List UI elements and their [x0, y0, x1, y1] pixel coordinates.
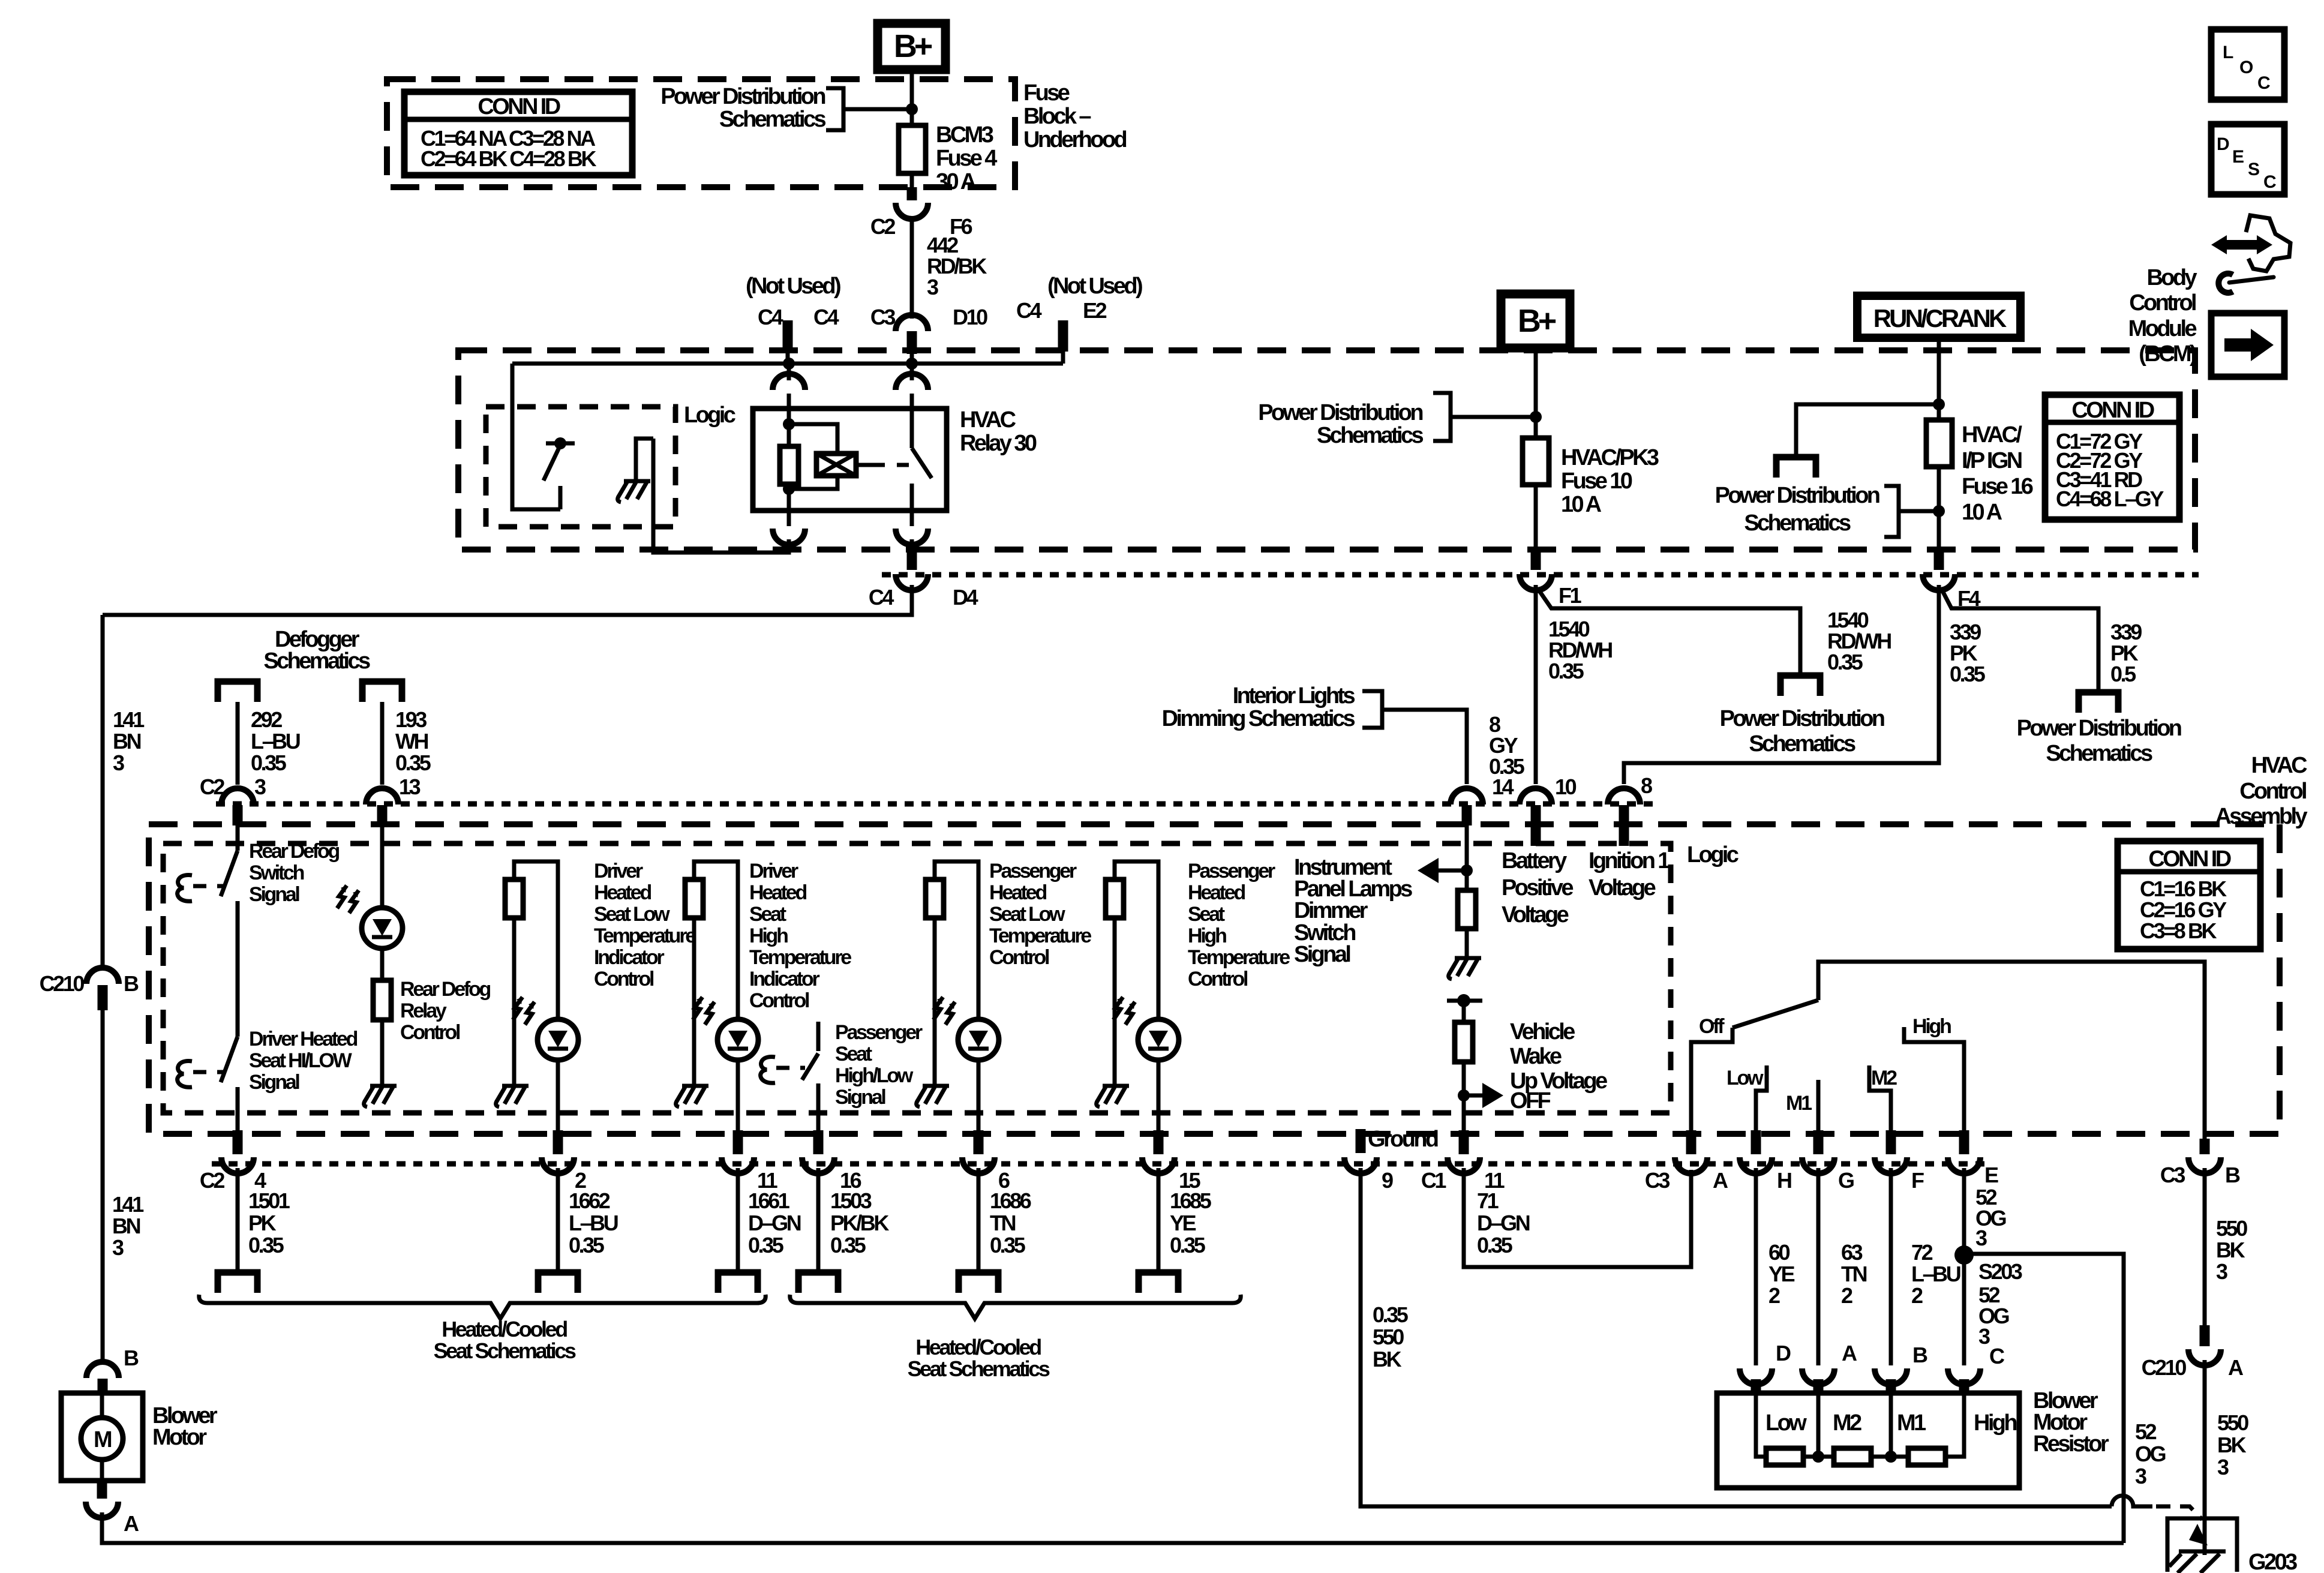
svg-text:YE: YE	[1170, 1211, 1196, 1235]
junction dot at fuse feed	[906, 103, 918, 115]
relay pin top (switch)	[910, 364, 914, 380]
logic ground path	[636, 439, 653, 480]
svg-text:High: High	[749, 924, 788, 947]
wire resistor to ground	[380, 1020, 385, 1085]
svg-text:M1: M1	[1786, 1092, 1812, 1115]
relay switch contact + blade	[910, 409, 914, 448]
svg-text:Relay: Relay	[400, 999, 447, 1022]
ground	[917, 1086, 949, 1107]
fuse HVAC/IP IGN Fuse 16 10 A	[1926, 420, 1952, 467]
connector C210 A	[2200, 1325, 2210, 1346]
svg-text:60: 60	[1768, 1240, 1790, 1265]
icon LOC box	[2211, 29, 2284, 100]
icon forward arrow box	[2211, 313, 2284, 377]
svg-text:Assembly: Assembly	[2215, 804, 2307, 829]
connector pin 6	[974, 1130, 984, 1154]
svg-text:HVAC/: HVAC/	[1962, 422, 2022, 448]
svg-text:High/Low: High/Low	[835, 1064, 914, 1087]
relay pin top (coil): wire, connector	[787, 364, 791, 380]
wire 71 D-GN 0.35 to pin A	[1464, 1168, 1691, 1267]
svg-text:0.35: 0.35	[1950, 662, 1986, 686]
connector pin G	[1813, 1130, 1824, 1154]
wire 442 RD/BK 3	[910, 220, 914, 319]
LED	[1138, 1019, 1179, 1060]
svg-text:Temperature: Temperature	[1188, 946, 1290, 969]
wire 141 BN 3 left vertical	[101, 615, 105, 966]
svg-text:Fuse 16: Fuse 16	[1962, 474, 2033, 499]
svg-text:3: 3	[254, 775, 266, 799]
svg-text:3: 3	[113, 751, 124, 775]
blower motor box	[61, 1393, 143, 1481]
svg-text:Control: Control	[989, 946, 1049, 969]
svg-text:Heated: Heated	[749, 881, 806, 904]
fuse BCM3 Fuse 4 30 A	[899, 125, 926, 173]
svg-text:C4: C4	[869, 585, 894, 610]
CONN ID table (fuse block)	[404, 92, 632, 175]
connector F4	[1923, 574, 1955, 590]
svg-text:D: D	[2217, 134, 2229, 154]
connector C4/D4	[907, 549, 917, 570]
svg-text:HVAC/PK3: HVAC/PK3	[1561, 445, 1659, 470]
wire F1 down to pin 10	[1534, 585, 1538, 784]
svg-text:Signal: Signal	[249, 1071, 299, 1094]
svg-text:CONN ID: CONN ID	[2148, 846, 2230, 872]
svg-text:YE: YE	[1768, 1262, 1795, 1286]
svg-text:0.35: 0.35	[1477, 1233, 1513, 1257]
wire 63 TN 2	[1816, 1168, 1821, 1365]
svg-text:BK: BK	[1373, 1347, 1402, 1371]
svg-text:3: 3	[927, 275, 938, 299]
svg-text:M1: M1	[1897, 1410, 1926, 1436]
svg-text:Control: Control	[400, 1021, 460, 1044]
CONN ID table (HVAC)	[2118, 841, 2260, 949]
svg-text:0.35: 0.35	[395, 751, 431, 775]
connector pin 11	[733, 1130, 743, 1154]
connector C2/F6	[907, 187, 917, 200]
svg-text:(BCM): (BCM)	[2139, 341, 2196, 367]
svg-text:Ground: Ground	[1368, 1127, 1438, 1152]
svg-text:Rear Defog: Rear Defog	[400, 978, 491, 1001]
svg-text:Control: Control	[594, 968, 654, 990]
svg-text:HVAC: HVAC	[2251, 753, 2308, 778]
svg-text:52: 52	[2135, 1419, 2157, 1444]
svg-text:0.35: 0.35	[251, 751, 287, 775]
relay coil resistor	[780, 446, 798, 484]
svg-text:Module: Module	[2128, 316, 2197, 341]
svg-text:B+: B+	[894, 28, 932, 64]
LED (rear defog relay)	[362, 908, 403, 948]
svg-text:Control: Control	[2239, 779, 2306, 804]
resistor element 2	[1834, 1448, 1871, 1465]
svg-text:B+: B+	[1518, 303, 1556, 339]
svg-text:0.5: 0.5	[2110, 662, 2136, 686]
relay pin bottom (coil)	[787, 511, 791, 526]
svg-text:High: High	[1188, 924, 1226, 947]
svg-text:A: A	[1713, 1168, 1728, 1193]
wire LED to resistor	[380, 948, 385, 980]
svg-text:(Not Used): (Not Used)	[746, 274, 840, 299]
M1 contact	[1816, 1080, 1821, 1131]
svg-text:9: 9	[1382, 1168, 1393, 1193]
wire to pin 16	[816, 1111, 821, 1131]
connector pin 13	[366, 788, 398, 804]
switch actuator (rear defog)	[178, 875, 192, 902]
power symbol B+ (second)	[1501, 294, 1570, 348]
svg-text:I/P IGN: I/P IGN	[1962, 448, 2022, 473]
motor M circle	[81, 1418, 123, 1460]
connector A (blower)	[97, 1481, 107, 1499]
svg-text:Indicator: Indicator	[594, 946, 664, 969]
svg-text:BCM3: BCM3	[936, 122, 993, 148]
resistor pin C	[1948, 1368, 1980, 1385]
bracket	[1433, 393, 1451, 441]
svg-text:0.35: 0.35	[1827, 650, 1863, 674]
svg-text:M: M	[94, 1427, 112, 1452]
series links + junction dots	[1803, 1455, 1834, 1459]
ground	[1097, 1086, 1129, 1107]
brace (heated/cooled seat schematics left)	[199, 1295, 765, 1319]
svg-text:Schematics: Schematics	[1317, 423, 1424, 448]
svg-text:0.35: 0.35	[830, 1233, 866, 1257]
svg-text:1503: 1503	[830, 1188, 872, 1213]
svg-text:Temperature: Temperature	[594, 924, 696, 947]
svg-text:Fuse 10: Fuse 10	[1561, 469, 1632, 494]
vehicle wake up branch: top bar	[1447, 999, 1482, 1003]
wire bracket to fuse wire	[1451, 415, 1536, 419]
page link symbol (defogger 292)	[218, 682, 257, 702]
svg-text:H: H	[1777, 1168, 1791, 1193]
wire common to C3-B	[1818, 962, 2205, 1139]
svg-text:Seat Low: Seat Low	[594, 903, 670, 926]
dashed link to ground	[2156, 1506, 2202, 1520]
svg-text:A: A	[2228, 1355, 2244, 1380]
passenger seat high/low switch: contact	[816, 1022, 821, 1051]
svg-text:G: G	[1838, 1168, 1854, 1193]
svg-text:292: 292	[251, 707, 282, 732]
svg-text:Schematics: Schematics	[263, 649, 370, 674]
svg-text:D4: D4	[953, 585, 978, 610]
rear defog switch signal: wire	[236, 825, 240, 851]
svg-text:71: 71	[1477, 1188, 1499, 1213]
ground (rear defog relay)	[364, 1086, 397, 1107]
svg-text:C3=8 BK: C3=8 BK	[2140, 918, 2217, 943]
svg-text:Schematics: Schematics	[719, 107, 826, 132]
svg-text:Dimmer: Dimmer	[1294, 898, 1368, 923]
svg-text:Signal: Signal	[835, 1086, 885, 1109]
svg-text:C3: C3	[2160, 1163, 2185, 1187]
M2 contact	[1869, 1065, 1891, 1131]
CONN ID table (BCM)	[2045, 395, 2179, 520]
LED	[538, 1019, 578, 1060]
switch blade	[802, 1053, 818, 1080]
wire 550 BK 3 to ground	[2203, 1360, 2207, 1555]
svg-text:C2=64 BK C4=28 BK: C2=64 BK C4=28 BK	[421, 146, 596, 171]
wire C4/D4 down-left to blower feed	[103, 585, 912, 615]
svg-text:B: B	[1912, 1343, 1927, 1367]
svg-text:(Not Used): (Not Used)	[1047, 274, 1142, 299]
LED branch: passenger heated seat high	[1115, 861, 1158, 1019]
svg-text:2: 2	[1911, 1283, 1923, 1308]
wire B+ to fuse 10	[1534, 348, 1538, 438]
svg-text:Interior Lights: Interior Lights	[1233, 683, 1355, 709]
svg-text:E2: E2	[1083, 298, 1107, 323]
svg-text:1685: 1685	[1170, 1188, 1212, 1213]
wire fuse to connector	[910, 173, 914, 187]
instrument panel lamps dimmer branch: wire	[1465, 825, 1469, 890]
svg-text:0.35: 0.35	[990, 1233, 1026, 1257]
svg-text:Vehicle: Vehicle	[1510, 1019, 1575, 1044]
svg-text:S203: S203	[1978, 1259, 2022, 1284]
arrow left (dimmer signal)	[1434, 869, 1467, 873]
bracket (fuse16 feed)	[1884, 486, 1899, 537]
relay coil wire + junctions	[787, 409, 791, 446]
svg-text:Signal: Signal	[249, 883, 299, 906]
svg-text:C4: C4	[758, 305, 783, 329]
svg-text:0.35: 0.35	[1170, 1233, 1206, 1257]
svg-text:Heated: Heated	[594, 881, 651, 904]
svg-text:1686: 1686	[990, 1188, 1031, 1213]
svg-text:Power Distribution: Power Distribution	[1720, 706, 1884, 731]
LED branch: driver heated seat low	[514, 861, 558, 1019]
connector C3 pin B	[2200, 1139, 2210, 1154]
svg-text:G203: G203	[2248, 1550, 2297, 1573]
svg-text:10: 10	[1555, 775, 1577, 799]
resistor element 3	[1908, 1448, 1945, 1465]
svg-text:Heated/Cooled: Heated/Cooled	[915, 1335, 1041, 1359]
svg-text:3: 3	[2135, 1464, 2146, 1488]
wire to second switch	[236, 929, 240, 1037]
svg-text:141: 141	[113, 707, 145, 732]
wire to pin 4	[236, 1115, 240, 1131]
fuse HVAC/PK3 Fuse 10 10 A	[1523, 438, 1549, 485]
svg-text:Voltage: Voltage	[1589, 875, 1656, 900]
resistor (wake up)	[1455, 1022, 1473, 1062]
svg-text:Temperature: Temperature	[749, 946, 851, 969]
ground	[676, 1086, 708, 1107]
svg-text:Seat Schematics: Seat Schematics	[908, 1356, 1050, 1381]
connector C2 pin 4	[233, 1130, 243, 1154]
connector B (blower)	[86, 1362, 119, 1378]
svg-text:C3: C3	[870, 305, 896, 329]
connector pin 9 (ground)	[1344, 1157, 1377, 1173]
svg-text:Temperature: Temperature	[989, 924, 1091, 947]
svg-text:1501: 1501	[248, 1188, 290, 1213]
LED	[717, 1019, 758, 1060]
svg-text:Wake: Wake	[1510, 1044, 1562, 1069]
svg-text:Schematics: Schematics	[1749, 731, 1855, 757]
connector pin E	[1959, 1130, 1969, 1154]
svg-text:BN: BN	[112, 1214, 140, 1238]
svg-text:CONN ID: CONN ID	[478, 94, 560, 119]
ground pin 9 stub	[1356, 1129, 1366, 1153]
svg-text:Voltage: Voltage	[1502, 902, 1569, 927]
rear defog relay control branch: wire from pin 13	[380, 825, 385, 908]
svg-text:0.35: 0.35	[748, 1233, 784, 1257]
connector pin 8	[1608, 788, 1640, 804]
logic switch pivot bar	[546, 442, 575, 446]
svg-text:3: 3	[2216, 1259, 2227, 1284]
svg-text:Seat: Seat	[835, 1043, 872, 1065]
svg-text:0.35: 0.35	[1373, 1302, 1409, 1327]
bracket to fuse feed	[826, 88, 843, 130]
svg-text:Seat: Seat	[749, 903, 786, 926]
svg-text:Control: Control	[1188, 968, 1248, 990]
wire pin 9 to ground run	[1361, 1168, 2112, 1506]
dotted connector row 2	[212, 1161, 1986, 1167]
blower switch: Off position	[1691, 1028, 1733, 1131]
svg-text:C: C	[1989, 1344, 2005, 1368]
power symbol RUN/CRANK	[1857, 296, 2020, 338]
icon service arrows + wrench	[2211, 215, 2290, 293]
crossover hop	[2112, 1496, 2152, 1506]
ground (dimmer)	[1449, 958, 1481, 979]
svg-text:Driver: Driver	[594, 860, 643, 882]
svg-text:Switch: Switch	[249, 861, 304, 884]
svg-text:30 A: 30 A	[936, 169, 977, 194]
svg-text:Control: Control	[749, 989, 809, 1012]
svg-text:141: 141	[112, 1192, 144, 1217]
svg-text:HVAC: HVAC	[960, 407, 1016, 433]
svg-text:RUN/CRANK: RUN/CRANK	[1873, 304, 2007, 332]
svg-text:C: C	[2257, 73, 2270, 93]
svg-text:C4=68 L–GY: C4=68 L–GY	[2056, 487, 2164, 511]
svg-text:PK: PK	[248, 1211, 277, 1235]
switch contact	[236, 901, 240, 929]
svg-text:High: High	[1912, 1015, 1951, 1038]
svg-text:Control: Control	[2129, 290, 2196, 316]
svg-text:TN: TN	[1841, 1262, 1867, 1286]
svg-text:E: E	[2232, 147, 2244, 167]
not used pin stub C4 (left)	[783, 320, 793, 352]
wire bracket to B+ wire	[843, 107, 912, 112]
svg-text:Heated: Heated	[989, 881, 1046, 904]
splice S203	[1954, 1245, 1974, 1265]
svg-text:Power Distribution: Power Distribution	[1258, 400, 1422, 425]
connector C210 B	[86, 968, 119, 984]
arrow right (wake up OFF)	[1464, 1094, 1487, 1098]
svg-text:B: B	[124, 1346, 139, 1370]
svg-text:Fuse 4: Fuse 4	[936, 146, 997, 171]
svg-text:10 A: 10 A	[1962, 500, 2002, 525]
svg-text:Ignition 1: Ignition 1	[1589, 848, 1670, 873]
wire 8 GY 0.35	[1382, 710, 1467, 784]
svg-text:13: 13	[399, 775, 421, 799]
arrow into ground	[2189, 1524, 2208, 1545]
switch contact lower	[816, 1083, 821, 1111]
wire 52 OG 3 to S203	[1962, 1168, 1966, 1365]
svg-text:Dimming Schematics: Dimming Schematics	[1162, 706, 1355, 731]
switch blade (rear defog)	[221, 851, 238, 896]
svg-text:14: 14	[1492, 775, 1514, 799]
resistor pin A	[1802, 1368, 1834, 1385]
resistor	[926, 879, 944, 918]
wire 193 WH 0.35	[380, 702, 385, 785]
connector C1 pin 11	[1459, 1130, 1469, 1154]
wire F1 branch to power distribution	[1539, 591, 1800, 674]
relay core (X box)	[816, 454, 856, 476]
connector pin 2	[553, 1130, 563, 1154]
svg-text:M2: M2	[1871, 1067, 1897, 1089]
svg-text:C2: C2	[870, 214, 896, 239]
svg-text:BK: BK	[2217, 1433, 2247, 1457]
switch contact	[236, 1087, 240, 1115]
svg-text:3: 3	[2217, 1455, 2229, 1479]
svg-text:L: L	[2223, 43, 2233, 62]
connector F1	[1520, 574, 1552, 590]
connector pin 14	[1451, 788, 1483, 804]
svg-text:Low: Low	[1727, 1067, 1764, 1089]
svg-text:Off: Off	[1699, 1015, 1725, 1038]
svg-text:550: 550	[2217, 1410, 2248, 1435]
dotted connector row 1	[216, 801, 1657, 807]
svg-text:Passenger: Passenger	[989, 860, 1077, 882]
wire 550 BK 3	[2203, 1168, 2207, 1325]
wire F4 branch to power distribution	[1942, 591, 2098, 691]
svg-text:C1: C1	[1421, 1168, 1447, 1193]
relay pin bottom (switch)	[910, 511, 914, 526]
svg-text:BK: BK	[2216, 1238, 2245, 1262]
svg-text:0.35: 0.35	[248, 1233, 284, 1257]
svg-text:E: E	[1984, 1163, 1998, 1187]
connector pin 10	[1520, 788, 1552, 804]
svg-text:D–GN: D–GN	[1477, 1211, 1530, 1235]
Low contact	[1756, 1065, 1767, 1131]
ground G203	[2167, 1518, 2297, 1573]
svg-text:1661: 1661	[748, 1188, 790, 1213]
svg-text:Seat HI/LOW: Seat HI/LOW	[249, 1049, 353, 1072]
svg-text:D: D	[1776, 1341, 1791, 1365]
svg-text:193: 193	[395, 707, 427, 732]
svg-text:PK/BK: PK/BK	[830, 1211, 889, 1235]
LED branch: passenger heated seat low	[935, 861, 978, 1019]
svg-text:3: 3	[1978, 1324, 1990, 1349]
resistor	[685, 879, 703, 918]
logic switch blade	[544, 445, 560, 481]
svg-text:High: High	[1974, 1410, 2016, 1436]
svg-text:63: 63	[1841, 1240, 1863, 1265]
svg-text:Body: Body	[2146, 265, 2197, 290]
svg-text:3: 3	[1975, 1226, 1987, 1250]
svg-text:F: F	[1911, 1168, 1924, 1193]
BCM logic dashed box	[486, 407, 675, 527]
connector pin F	[1886, 1130, 1896, 1154]
svg-text:0.35: 0.35	[1548, 659, 1584, 683]
svg-text:D–GN: D–GN	[748, 1211, 801, 1235]
svg-text:B: B	[2225, 1163, 2240, 1187]
resistor element 1	[1766, 1448, 1803, 1465]
BCM outer dashed box	[458, 350, 2195, 550]
svg-text:Heated: Heated	[1188, 881, 1245, 904]
svg-text:C2: C2	[200, 775, 225, 799]
svg-text:0.35: 0.35	[569, 1233, 605, 1257]
svg-text:D10: D10	[953, 305, 987, 329]
svg-text:TN: TN	[990, 1211, 1016, 1235]
svg-text:550: 550	[2216, 1216, 2247, 1241]
svg-text:L–BU: L–BU	[1911, 1262, 1960, 1286]
ground (logic)	[618, 481, 650, 502]
svg-text:Fuse: Fuse	[1023, 80, 1070, 106]
connector C3/D10	[896, 315, 928, 331]
HVAC control assembly outer dashed box	[149, 824, 2280, 1134]
wire 292 L-BU 0.35	[236, 702, 240, 785]
svg-text:C3: C3	[1645, 1168, 1670, 1193]
High contact	[1904, 1027, 1964, 1131]
svg-text:Power Distribution: Power Distribution	[2017, 716, 2181, 741]
svg-text:3: 3	[112, 1235, 124, 1260]
connector pin H	[1751, 1130, 1761, 1154]
svg-text:C4: C4	[813, 305, 839, 329]
internal bus wire (line A)	[512, 362, 1063, 366]
